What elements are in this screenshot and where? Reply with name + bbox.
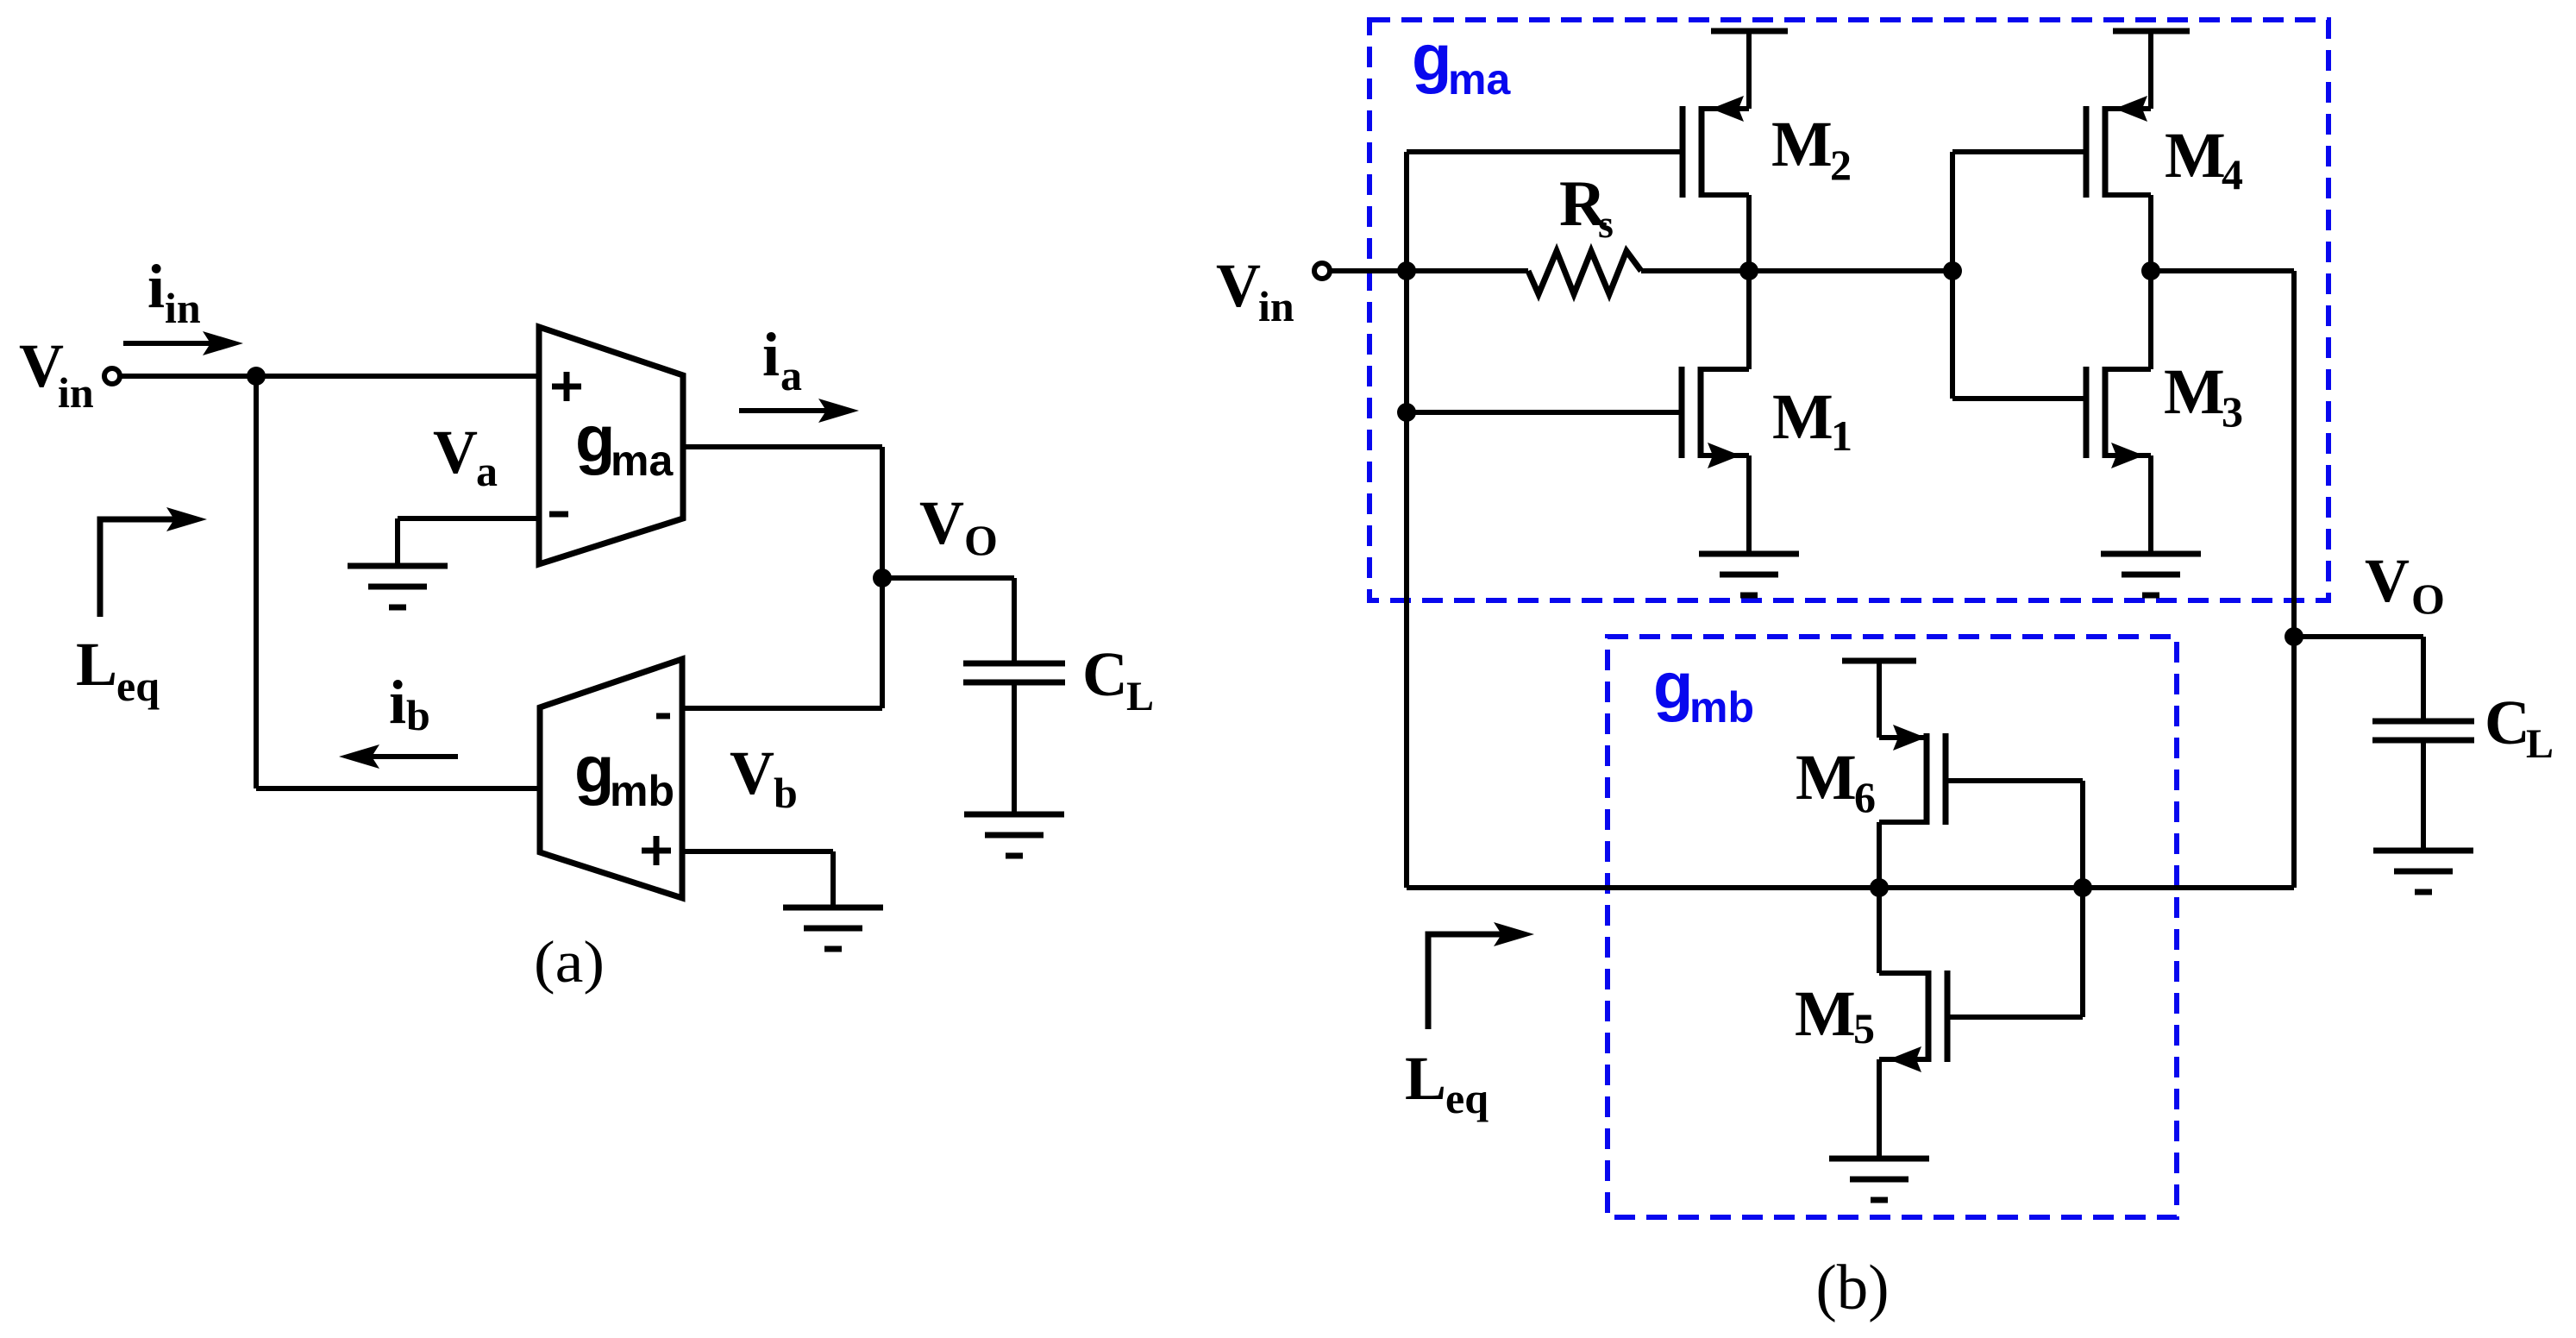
svg-text:V: V	[919, 488, 964, 557]
svg-text:i: i	[147, 252, 165, 321]
svg-text:L: L	[1405, 1044, 1446, 1113]
svg-text:eq: eq	[116, 662, 160, 710]
svg-text:M: M	[1771, 109, 1833, 180]
svg-text:eq: eq	[1445, 1074, 1489, 1122]
svg-text:M: M	[1795, 978, 1856, 1050]
svg-text:ma: ma	[1448, 55, 1511, 104]
svg-text:V: V	[433, 418, 478, 487]
svg-text:5: 5	[1853, 1004, 1875, 1052]
svg-text:b: b	[406, 691, 430, 739]
svg-text:(b): (b)	[1816, 1253, 1890, 1323]
svg-text:s: s	[1598, 202, 1614, 246]
svg-text:a: a	[476, 447, 498, 495]
svg-text:O: O	[964, 516, 998, 564]
svg-text:M: M	[1796, 742, 1857, 813]
svg-text:g: g	[1412, 22, 1451, 95]
svg-text:mb: mb	[610, 767, 674, 815]
svg-text:i: i	[762, 320, 780, 389]
svg-text:L: L	[76, 630, 117, 699]
svg-text:in: in	[165, 284, 201, 332]
svg-text:3: 3	[2222, 387, 2243, 436]
svg-text:g: g	[575, 403, 615, 476]
svg-text:6: 6	[1854, 773, 1876, 821]
svg-text:a: a	[780, 351, 802, 399]
svg-text:V: V	[730, 738, 774, 807]
svg-text:2: 2	[1830, 141, 1852, 189]
svg-text:in: in	[58, 368, 94, 417]
svg-text:4: 4	[2222, 150, 2243, 198]
svg-text:M: M	[2165, 120, 2226, 192]
svg-text:C: C	[1082, 639, 1128, 709]
svg-text:g: g	[1653, 650, 1693, 723]
svg-text:(a): (a)	[534, 929, 605, 995]
svg-text:L: L	[1126, 674, 1154, 719]
svg-text:V: V	[1216, 251, 1261, 320]
svg-text:C: C	[2485, 688, 2530, 757]
svg-text:M: M	[2164, 356, 2225, 428]
svg-text:ma: ma	[611, 437, 674, 485]
svg-text:L: L	[2526, 721, 2554, 767]
svg-text:in: in	[1258, 282, 1294, 330]
svg-text:V: V	[2365, 546, 2410, 615]
svg-text:i: i	[389, 668, 406, 737]
svg-text:g: g	[574, 733, 614, 807]
svg-text:mb: mb	[1689, 683, 1754, 732]
svg-text:b: b	[774, 769, 798, 817]
svg-text:1: 1	[1831, 411, 1852, 460]
svg-text:O: O	[2411, 575, 2445, 623]
svg-text:M: M	[1772, 381, 1833, 453]
